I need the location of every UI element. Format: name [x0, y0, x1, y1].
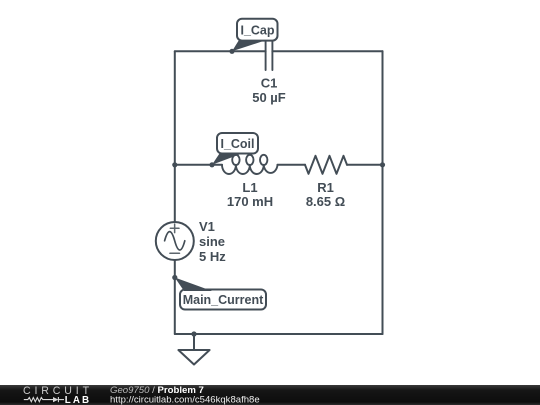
wire middle right segment	[347, 164, 383, 166]
svg-text:I_Coil: I_Coil	[220, 137, 254, 151]
junction node top (I_Cap probe)	[229, 49, 234, 54]
flag I_Cap	[232, 19, 278, 52]
wire left vertical lower	[174, 260, 176, 334]
footer bar	[0, 385, 540, 405]
V1 plus sign	[170, 224, 180, 253]
voltage source V1 circle	[156, 222, 194, 260]
wire middle between L1 and R1	[278, 164, 306, 166]
svg-text:50 µF: 50 µF	[252, 90, 286, 105]
wire middle left segment	[175, 164, 222, 166]
footer logo wire+resistor+diode	[24, 397, 64, 402]
capacitor C1 plates	[266, 34, 273, 70]
flag Main_Current	[175, 278, 266, 310]
svg-text:LAB: LAB	[65, 395, 91, 405]
flag I_Coil	[212, 133, 258, 165]
svg-text:sine: sine	[199, 234, 225, 249]
svg-text:5 Hz: 5 Hz	[199, 249, 226, 264]
junction node Main_Current probe	[172, 275, 177, 280]
footer logo diode triangle	[53, 397, 58, 402]
ground symbol triangle	[178, 350, 209, 365]
svg-text:170 mH: 170 mH	[227, 194, 273, 209]
svg-text:V1: V1	[199, 219, 215, 234]
ground stub	[193, 334, 195, 350]
junction node I_Coil probe	[209, 162, 214, 167]
svg-text:8.65 Ω: 8.65 Ω	[306, 194, 345, 209]
wire left vertical upper	[174, 51, 176, 222]
svg-text:R1: R1	[317, 180, 334, 195]
wire top-left horizontal segment	[175, 50, 266, 52]
junction node ground	[191, 331, 196, 336]
svg-text:L1: L1	[242, 180, 257, 195]
svg-text:http://circuitlab.com/c546kqk8: http://circuitlab.com/c546kqk8afh8e	[110, 394, 260, 405]
svg-text:Main_Current: Main_Current	[183, 293, 264, 307]
junction node middle-right	[380, 162, 385, 167]
svg-text:C1: C1	[261, 76, 278, 91]
V1 minus sign	[170, 252, 180, 254]
junction node middle-left	[172, 162, 177, 167]
svg-text:I_Cap: I_Cap	[240, 24, 274, 38]
wire bottom horizontal	[175, 333, 383, 335]
resistor R1 zigzag	[305, 156, 347, 174]
inductor L1	[222, 155, 278, 174]
wire top-right horizontal segment	[272, 50, 382, 52]
V1 sine wave	[165, 232, 185, 250]
wire right vertical	[382, 51, 384, 334]
